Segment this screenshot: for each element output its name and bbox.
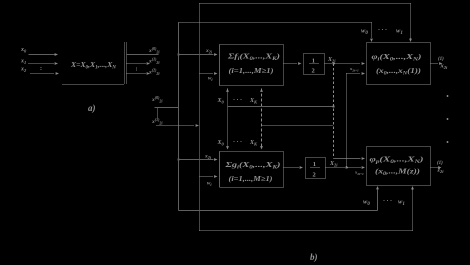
svg-text:x(1)​2i​: x(1)​2i​: [148, 56, 160, 65]
wire scaler1 fraction bar: [310, 63, 319, 65]
wire bottom route w1 horizontal (dotted): [200, 230, 413, 232]
wire bus A vertical (solid): [178, 23, 180, 211]
wire cross into U4 (solid): [334, 158, 361, 160]
svg-text:2: 2: [312, 68, 315, 75]
svg-text::: :: [136, 67, 138, 73]
wire splitter bus left: [124, 43, 126, 85]
box U1 top predictor: [220, 45, 284, 86]
svg-text:x0​: x0​: [20, 47, 27, 54]
svg-text:X0​: X0​: [217, 98, 225, 105]
wire bottom route w0 riser: [377, 190, 379, 211]
svg-text::: :: [40, 66, 42, 72]
wire top route w0 horizontal: [179, 22, 372, 24]
box scaler half bottom: [306, 158, 326, 179]
svg-text:x(0)​2i​: x(0)​2i​: [148, 46, 160, 55]
svg-text:x2i+1​: x2i+1​: [349, 66, 359, 73]
wire U1 output to scaler1: [284, 63, 298, 65]
wire scaler2 fraction bar: [311, 167, 320, 169]
svg-text:w1​: w1​: [396, 28, 403, 37]
svg-text:a): a): [88, 103, 96, 113]
svg-text:w0​: w0​: [361, 28, 368, 37]
svg-text:· · ·: · · ·: [233, 140, 242, 146]
svg-text:Σfi​(X0​,...,XK​): Σfi​(X0​,...,XK​): [227, 52, 281, 63]
wire left input 1 (dotted): [157, 125, 195, 127]
wire middle horizontal dotted: [262, 125, 334, 127]
box scaler half top: [304, 54, 325, 75]
wire input x0: [29, 54, 55, 56]
svg-text:w1​: w1​: [398, 199, 405, 208]
wire bus A tap to bottom box: [179, 159, 214, 161]
svg-text:X=X0​,X1​,...,XN​: X=X0​,X1​,...,XN​: [70, 60, 116, 71]
wire scaler1 output to U2: [325, 63, 361, 65]
wire bus A tap to top box: [179, 54, 214, 56]
wire vdots connector between left inputs: [157, 109, 159, 119]
svg-text:1: 1: [313, 161, 316, 168]
svg-text:X2i​: X2i​: [327, 57, 336, 64]
svg-text:b): b): [310, 252, 318, 262]
wire cross into U2 (dotted): [347, 73, 361, 75]
svg-text:w0​: w0​: [363, 199, 370, 208]
wire middle horizontal solid: [228, 106, 334, 108]
wire XK column vertical: [261, 89, 263, 149]
svg-text:XK​: XK​: [249, 140, 258, 147]
svg-text:wi​: wi​: [208, 77, 213, 83]
wire splitter bus right: [126, 43, 128, 85]
svg-text:φp​(X0​,...,XN​): φp​(X0​,...,XN​): [370, 155, 425, 166]
node vdots between outputs: [447, 95, 449, 97]
wire splitter output 0 (solid): [127, 54, 159, 56]
wire bus B vertical (dotted): [199, 4, 201, 231]
svg-text:· · ·: · · ·: [383, 199, 392, 205]
box U2 top update: [367, 43, 431, 85]
svg-text:x(1)​2i​: x(1)​2i​: [151, 117, 163, 126]
wire U3 output to scaler2: [284, 167, 299, 169]
box U4 bottom update: [367, 147, 431, 186]
svg-text:x2i​: x2i​: [205, 48, 213, 55]
wire splitter output 1: [127, 63, 147, 65]
wire scaler2 output to U4: [326, 167, 361, 169]
wire U4 output: [431, 167, 438, 169]
svg-text:XK​: XK​: [249, 98, 258, 105]
wire input x1: [29, 63, 55, 65]
wire cross up from bottom line (dotted): [346, 74, 348, 168]
svg-text:x2​: x2​: [20, 67, 27, 74]
svg-text:X0​: X0​: [217, 140, 225, 147]
svg-text:x2i​: x2i​: [204, 154, 212, 161]
svg-text:x(2)​2i​: x(2)​2i​: [148, 67, 160, 76]
svg-text:(i=1,...,M≥1): (i=1,...,M≥1): [229, 174, 274, 183]
wire top route w1 drop: [410, 4, 412, 39]
wire input x2: [31, 73, 55, 75]
svg-text:· · ·: · · ·: [378, 28, 387, 34]
wire U2 output: [431, 63, 439, 65]
svg-text:x(0)​2i​: x(0)​2i​: [151, 95, 163, 104]
svg-text:2: 2: [313, 172, 316, 179]
svg-text:Σgi​(X0​,...,XK​): Σgi​(X0​,...,XK​): [224, 160, 281, 171]
svg-text:φi​(X0​,...,XN​): φi​(X0​,...,XN​): [372, 52, 423, 63]
wire top route w0 drop: [371, 23, 373, 39]
wire splitter output 2: [127, 73, 147, 75]
wire bottom route w1 riser: [412, 190, 414, 231]
svg-text:X2i​: X2i​: [329, 161, 338, 168]
svg-text:(i=1,...,M≥1): (i=1,...,M≥1): [229, 66, 275, 75]
wire X0 column vertical: [227, 89, 229, 149]
svg-text:x2i​: x2i​: [440, 63, 449, 71]
svg-text:x1​: x1​: [20, 59, 26, 66]
wire bus B tap to top box: [200, 73, 214, 75]
svg-text:(x0​,...,M(z)): (x0​,...,M(z)): [375, 167, 421, 178]
svg-text:x2i+1​: x2i+1​: [354, 170, 364, 177]
svg-text:(1): (1): [437, 161, 443, 166]
wire cross down from top line (dashed): [333, 64, 335, 159]
svg-text:wi​: wi​: [207, 182, 212, 188]
wire top route w1 horizontal: [200, 3, 411, 5]
wire left input 0 (solid): [155, 107, 179, 109]
wire bus B tap to bottom box: [200, 176, 214, 178]
wire underline of X text: [63, 84, 125, 86]
svg-text:(1): (1): [438, 57, 444, 62]
svg-text:· · ·: · · ·: [233, 98, 242, 104]
svg-text:(x0​,...,xN​(1)): (x0​,...,xN​(1)): [376, 66, 422, 77]
wire bottom route w0 horizontal (solid): [179, 210, 378, 212]
box U3 bottom predictor: [220, 152, 284, 188]
